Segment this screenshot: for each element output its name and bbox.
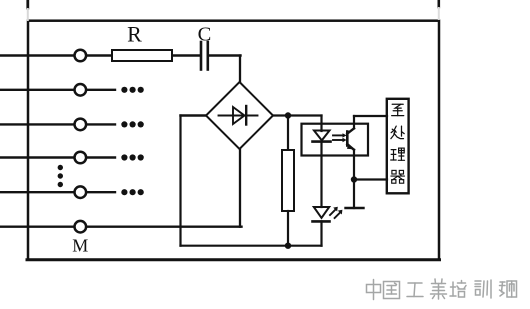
LED emission arrow 1 [330,207,338,215]
wire LED to bottom bus [320,221,322,245]
faint erased lead segment right [438,8,440,19]
watermark 網 [500,281,517,297]
resistor R1 top lead [287,116,289,151]
watermark 國 [384,282,400,299]
terminal circle input M [75,221,87,233]
wire left loop vertical [179,116,181,246]
phototransistor emitter arrowhead [347,144,354,150]
optocoupler U1 box [302,124,369,156]
wire input 1 [0,54,112,56]
junction dot bridge+ / resistor top [285,112,291,118]
watermark 業 [431,279,447,299]
svg-text:M: M [72,236,88,256]
resistor R body [112,50,172,61]
top-right lead stub [437,0,440,7]
watermark 中 [367,280,381,300]
wire input 5 [0,191,115,193]
opto LED triangle [314,131,330,141]
label 处 in processor box [391,126,404,139]
faint erased lead segment left [27,9,29,20]
watermark 培 [450,281,466,298]
terminal circle input 5 [75,186,87,198]
phototransistor emitter stroke [347,144,354,150]
wire bridge left to loop [181,114,207,116]
svg-text:C: C [198,23,212,45]
wire opto LED to indicator LED [320,142,322,207]
resistor R1 body (vertical) [282,150,294,211]
label 至 (to) in processor box [392,104,404,115]
terminal circle input 1 [75,50,87,62]
svg-text:R: R [127,21,142,46]
bridge diode symbol [219,106,258,125]
ellipsis dots wire 3 [121,121,143,127]
wire emitter tap to processor box [354,178,387,180]
junction dot emitter tap [351,176,357,182]
bridge rectifier diamond [206,82,273,149]
capacitor C left plate [200,42,203,70]
indicator LED D1 triangle [314,207,329,218]
wire collector up [353,116,355,128]
label 理 in processor box [391,148,405,160]
capacitor C right plate [207,42,210,70]
ellipsis dots wire 5 [121,189,143,195]
wire into opto LED [320,116,322,132]
phototransistor Q1 base bar [346,132,349,146]
wire bottom bus [181,245,322,247]
phototransistor collector stroke [347,128,354,133]
outer enclosure box [28,21,439,260]
wire input 3 [0,123,115,125]
opto coupling arrow 1 [333,133,347,137]
terminal circle input 4 [75,152,87,164]
outer enclosure bottom edge (heavier) [27,258,440,261]
wire bridge top lead [239,56,241,84]
junction dot resistor bottom / bus [285,243,291,249]
ellipsis dots wire 2 [121,87,143,93]
terminal circle input 3 [75,119,87,131]
wire R to C [172,54,200,56]
watermark 訓 [475,280,491,298]
top-left lead stub [26,0,29,8]
ellipsis dots wire 4 [121,154,143,160]
terminal circle input 2 [75,84,87,96]
label 器 in processor box [391,170,405,183]
processor box [387,99,409,194]
vertical ellipsis dots [58,165,63,187]
wire collector to processor box [354,115,387,117]
wire bridge bottom lead [239,148,241,227]
wire input 4 [0,156,115,158]
indicator LED cathode bar [313,220,330,223]
opto coupling arrow 2 [333,138,347,142]
watermark 工 [407,283,423,297]
wire bridge right rail [273,114,322,116]
emitter terminal T bar [346,207,364,209]
wire C to bridge top [209,54,241,56]
wire input M [0,225,242,227]
opto LED cathode bar [313,140,331,143]
wire emitter down [353,150,355,208]
LED emission arrow 2 [335,210,343,218]
wire input 2 [0,89,115,91]
resistor R1 bottom lead [287,211,289,246]
